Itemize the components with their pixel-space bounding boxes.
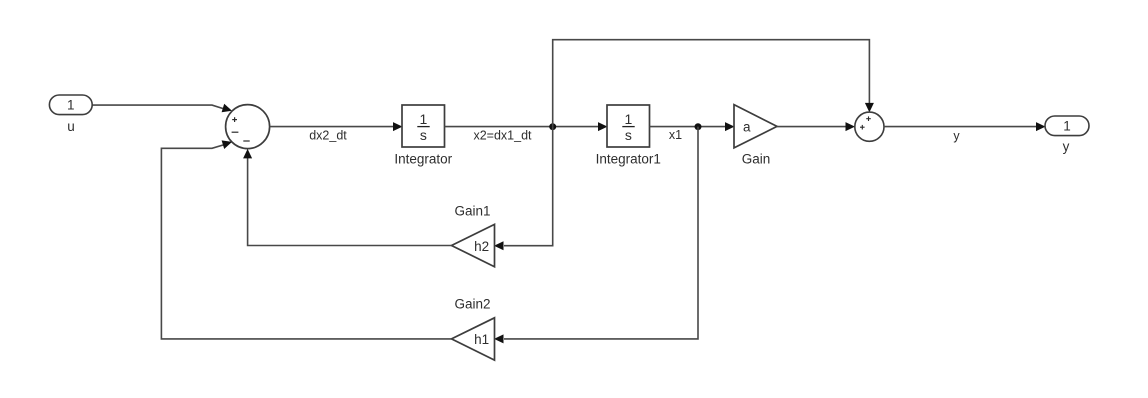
svg-text:x1: x1 (669, 128, 682, 142)
node x2 junction (549, 123, 556, 130)
sum junction Add (855, 112, 884, 141)
wire Integrator to Integrator1 (445, 126, 599, 128)
svg-text:s: s (625, 127, 632, 143)
svg-text:s: s (420, 127, 427, 143)
svg-text:Gain2: Gain2 (454, 296, 490, 311)
svg-text:Gain1: Gain1 (454, 203, 490, 218)
svg-text:u: u (67, 119, 75, 134)
wire Integrator1 to Gain (650, 126, 726, 128)
gain Gain1 (452, 224, 495, 266)
arrowhead into Sum upper-left (222, 104, 232, 113)
svg-text:h1: h1 (474, 332, 489, 347)
gain Gain2 (452, 318, 495, 360)
svg-text:1: 1 (1063, 118, 1071, 133)
svg-text:dx2_dt: dx2_dt (309, 128, 347, 142)
svg-text:Integrator1: Integrator1 (596, 151, 661, 166)
sum junction Sum (226, 105, 270, 149)
wire Sum to Integrator (270, 126, 394, 128)
integrator Integrator1 (607, 105, 650, 147)
svg-text:y: y (953, 129, 960, 143)
wire x2 to Gain1 (504, 127, 553, 246)
svg-text:h2: h2 (474, 239, 489, 254)
svg-text:1: 1 (625, 111, 633, 127)
svg-text:1: 1 (420, 111, 428, 127)
wire Add to Out1 (884, 126, 1037, 128)
outport Out1 (1045, 116, 1089, 136)
node x1 junction (695, 123, 702, 130)
wire u to Sum (93, 105, 227, 109)
wire Gain1 to Sum bottom (248, 158, 452, 246)
integrator Integrator (402, 105, 445, 147)
svg-text:y: y (1063, 139, 1070, 154)
wire x2 branch to Add top (553, 40, 870, 127)
svg-text:Gain: Gain (742, 151, 771, 166)
wire Gain2 to Sum left (161, 144, 451, 339)
wire Gain to Add (777, 126, 846, 128)
wire x1 to Gain2 (504, 127, 698, 339)
svg-text:x2=dx1_dt: x2=dx1_dt (473, 129, 532, 143)
gain Gain (734, 105, 777, 148)
inport In1 (49, 95, 92, 115)
svg-text:a: a (743, 119, 751, 134)
svg-text:1: 1 (67, 98, 75, 113)
svg-text:Integrator: Integrator (394, 151, 452, 166)
